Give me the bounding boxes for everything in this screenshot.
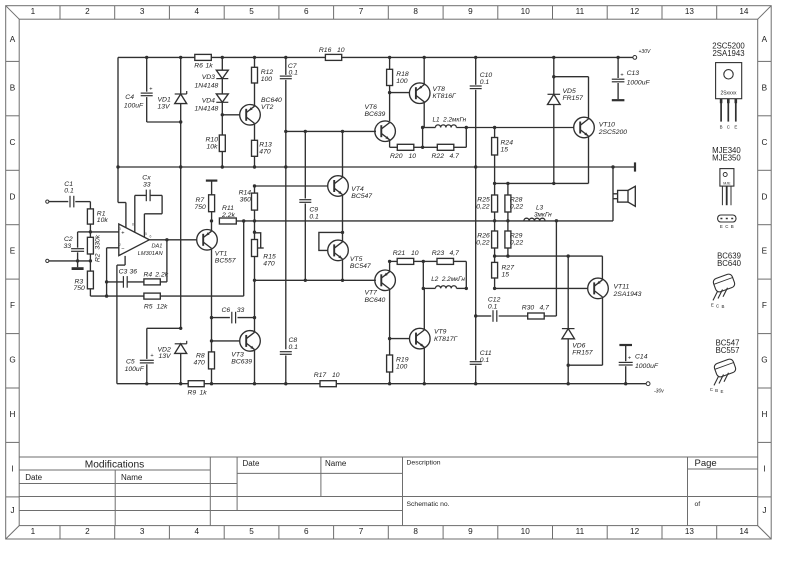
svg-text:VT3: VT3: [231, 351, 244, 358]
wire VT7 collector: [389, 289, 391, 339]
package TO-126 drawing: [720, 169, 734, 187]
wire R7 bottom: [211, 212, 213, 221]
package TO-92 bottom view: [718, 215, 736, 222]
svg-text:C11: C11: [480, 350, 492, 357]
resistor R8: [209, 352, 215, 369]
wire VT8 emitter to rail: [423, 57, 425, 84]
svg-text:2: 2: [119, 243, 121, 247]
svg-text:MJE: MJE: [723, 182, 731, 186]
svg-text:36: 36: [130, 269, 138, 276]
transistor VT10 2SC5200: [574, 117, 595, 138]
svg-text:10: 10: [411, 250, 419, 257]
resistor R1: [87, 209, 93, 224]
inductor L3: [524, 218, 545, 221]
svg-text:C9: C9: [309, 206, 318, 213]
svg-text:I: I: [11, 465, 13, 474]
svg-text:13V: 13V: [158, 103, 172, 110]
wire R11 right: [236, 220, 243, 222]
wire VT6 base: [375, 130, 376, 132]
svg-text:11: 11: [576, 7, 585, 16]
svg-text:470: 470: [194, 359, 206, 366]
wire VT4 emitter to VT5 collector: [342, 195, 344, 242]
capacitor C7: [285, 57, 287, 75]
svg-text:+: +: [149, 86, 152, 92]
svg-text:C6: C6: [222, 307, 231, 314]
svg-text:100: 100: [396, 363, 408, 370]
resistor R7: [211, 181, 213, 195]
svg-text:11: 11: [576, 527, 585, 536]
wire -30V bottom rail: [117, 383, 188, 385]
wire C3 left: [107, 281, 124, 283]
svg-text:0,22: 0,22: [476, 204, 489, 211]
svg-text:E: E: [721, 389, 724, 394]
svg-text:7: 7: [359, 7, 364, 16]
wire +input: [90, 231, 118, 233]
svg-text:of: of: [695, 501, 701, 508]
svg-text:Date: Date: [25, 473, 42, 482]
svg-text:12: 12: [630, 7, 640, 16]
svg-text:R22: R22: [432, 153, 445, 160]
svg-text:BC639: BC639: [231, 359, 252, 366]
wire input2: [49, 260, 91, 262]
svg-text:E: E: [720, 224, 723, 229]
svg-text:VT11: VT11: [614, 284, 630, 291]
svg-text:H: H: [761, 410, 767, 419]
wire VT11 emitter feed: [495, 255, 603, 257]
capacitor C9: [304, 131, 306, 198]
svg-text:10: 10: [521, 527, 531, 536]
svg-text:13: 13: [685, 527, 695, 536]
transistor VT9 KT817: [410, 328, 431, 349]
svg-text:13V: 13V: [159, 353, 173, 360]
package TO-92 3d view BC547/BC557: [713, 358, 737, 378]
resistor R23: [423, 260, 437, 262]
wire R3 bottom to feedback bus: [89, 289, 91, 296]
svg-text:КТ817Г: КТ817Г: [434, 336, 458, 343]
wire VD4 to base node: [221, 102, 223, 115]
svg-text:VT7: VT7: [365, 290, 378, 297]
svg-text:BC640: BC640: [261, 97, 282, 104]
svg-text:470: 470: [263, 260, 275, 267]
svg-text:0.1: 0.1: [289, 69, 299, 76]
svg-text:B: B: [762, 83, 768, 92]
wire VT7 emitter: [389, 261, 391, 272]
svg-text:C13: C13: [627, 70, 640, 77]
wire lower rail VAS: [255, 279, 376, 281]
terminal input 2: [46, 259, 49, 262]
wire C1 to R1: [75, 201, 90, 203]
terminal output bar: [634, 162, 636, 171]
svg-text:1k: 1k: [200, 390, 208, 397]
speaker: [613, 193, 618, 195]
svg-text:1: 1: [31, 7, 36, 16]
svg-text:FR157: FR157: [572, 350, 593, 357]
svg-text:R17: R17: [314, 372, 327, 379]
svg-text:F: F: [762, 301, 767, 310]
resistor R15 trimmer: [252, 240, 258, 257]
svg-text:+30V: +30V: [639, 49, 651, 55]
svg-text:1000uF: 1000uF: [635, 363, 659, 370]
svg-text:A: A: [10, 35, 16, 44]
svg-text:100: 100: [396, 78, 408, 85]
svg-text:6: 6: [304, 527, 309, 536]
inductor L2: [422, 261, 424, 288]
svg-text:10: 10: [521, 7, 531, 16]
svg-text:−: −: [121, 247, 124, 253]
svg-text:R19: R19: [396, 356, 409, 363]
svg-text:F: F: [10, 301, 15, 310]
resistor R17: [320, 381, 336, 387]
svg-text:R28: R28: [510, 196, 523, 203]
resistor R4: [144, 279, 160, 285]
svg-text:D: D: [761, 192, 767, 201]
svg-text:100uF: 100uF: [124, 102, 144, 109]
transistor VT3 BC639: [240, 331, 261, 352]
svg-text:1N4148: 1N4148: [195, 82, 219, 89]
svg-text:6: 6: [304, 7, 309, 16]
resistor R19: [387, 355, 393, 372]
resistor R25: [492, 195, 498, 212]
wire R1 to +input node: [89, 224, 91, 232]
svg-text:BC547: BC547: [351, 193, 372, 200]
resistor R12: [252, 67, 258, 83]
resistor R14: [252, 193, 258, 210]
wire R2 leads: [89, 232, 91, 237]
capacitor C11: [475, 167, 477, 361]
svg-text:VT10: VT10: [599, 122, 615, 129]
svg-text:R9: R9: [188, 390, 197, 397]
resistor R18: [387, 69, 393, 85]
svg-text:C: C: [10, 138, 16, 147]
wire op-amp output: [149, 239, 196, 241]
svg-text:C: C: [727, 124, 730, 129]
svg-text:2: 2: [85, 527, 90, 536]
svg-text:VT1: VT1: [215, 250, 228, 257]
resistor R26: [492, 231, 498, 248]
svg-text:VT9: VT9: [434, 329, 447, 336]
svg-text:0,22: 0,22: [510, 204, 523, 211]
svg-text:2SA1943: 2SA1943: [613, 291, 642, 298]
svg-text:E: E: [762, 247, 768, 256]
terminal bar R7: [206, 180, 218, 182]
svg-text:VT4: VT4: [351, 186, 364, 193]
svg-text:VT2: VT2: [261, 104, 274, 111]
svg-text:R29: R29: [510, 232, 523, 239]
wire VT6 collector: [389, 93, 391, 121]
svg-text:6: 6: [150, 235, 152, 239]
svg-text:33: 33: [237, 307, 245, 314]
svg-text:10k: 10k: [97, 217, 109, 224]
svg-text:G: G: [9, 356, 15, 365]
svg-text:J: J: [762, 506, 766, 515]
svg-text:Cx: Cx: [142, 174, 151, 181]
transistor VT4 BC547: [328, 176, 349, 197]
diode VD5: [553, 57, 555, 94]
wire VT3 collector: [254, 280, 256, 332]
resistor R28: [505, 195, 511, 212]
svg-text:L3: L3: [536, 204, 544, 211]
svg-text:E: E: [734, 124, 737, 129]
wire VT10 collector: [588, 77, 590, 119]
wire VT6 emitter: [389, 140, 391, 148]
wire R5 to jog: [160, 295, 243, 297]
wire R3 top: [89, 261, 91, 271]
svg-text:15: 15: [502, 271, 510, 278]
diode VD4: [216, 94, 228, 102]
svg-text:2.2k: 2.2k: [221, 212, 235, 219]
resistor R29: [505, 231, 511, 248]
svg-text:R2 330k: R2 330k: [94, 234, 101, 262]
transistor VT6 BC639: [375, 121, 396, 142]
capacitor C2: [71, 248, 84, 250]
svg-text:B: B: [720, 124, 723, 129]
svg-text:5: 5: [249, 7, 254, 16]
svg-text:VT8: VT8: [433, 86, 446, 93]
svg-text:0.1: 0.1: [480, 357, 490, 364]
wire VT10 emitter: [588, 136, 590, 183]
svg-text:Date: Date: [243, 459, 260, 468]
wire VT6 base feed: [286, 130, 376, 132]
wire VT5 emitter: [342, 259, 344, 280]
svg-text:Name: Name: [325, 459, 347, 468]
svg-text:R27: R27: [502, 264, 515, 271]
svg-text:12: 12: [630, 527, 640, 536]
svg-text:8: 8: [413, 527, 418, 536]
svg-text:2: 2: [85, 7, 90, 16]
svg-text:R14: R14: [239, 190, 252, 197]
wire input1: [49, 201, 68, 203]
transistor VT8 KT816: [409, 83, 430, 104]
zener VD2: [175, 343, 187, 345]
svg-text:4,7: 4,7: [540, 304, 550, 311]
svg-text:1: 1: [31, 527, 36, 536]
svg-text:4.7: 4.7: [450, 153, 460, 160]
wire VT4 base: [255, 185, 328, 187]
resistor R6: [195, 54, 212, 60]
svg-text:D: D: [10, 192, 16, 201]
svg-text:R4: R4: [144, 272, 153, 279]
svg-text:C12: C12: [488, 296, 501, 303]
svg-text:8: 8: [413, 7, 418, 16]
svg-text:C5: C5: [126, 358, 135, 365]
svg-text:C4: C4: [125, 94, 134, 101]
wire left supply column upper: [117, 57, 119, 202]
svg-text:Name: Name: [121, 473, 143, 482]
package TO-264 drawing: [716, 63, 742, 99]
capacitor C8: [280, 351, 292, 353]
capacitor C1: [69, 196, 71, 208]
svg-text:8: 8: [132, 223, 134, 227]
svg-text:C: C: [725, 224, 728, 229]
svg-text:C3: C3: [119, 269, 128, 276]
svg-text:R7: R7: [196, 197, 205, 204]
svg-text:5: 5: [145, 232, 147, 236]
wire C2 to input2: [77, 252, 79, 261]
resistor R22: [423, 146, 438, 148]
resistor R2: [87, 237, 93, 254]
transistor VT5 BC547: [328, 240, 349, 261]
svg-text:C: C: [761, 138, 767, 147]
ground bar under C2: [77, 261, 79, 267]
svg-text:4: 4: [195, 7, 200, 16]
svg-text:J: J: [10, 506, 14, 515]
svg-text:750: 750: [195, 204, 207, 211]
wire VD1 column mid: [180, 167, 182, 328]
capacitor C5: [146, 328, 148, 359]
svg-text:10: 10: [337, 47, 345, 54]
svg-text:-30v: -30v: [654, 389, 664, 395]
svg-text:3: 3: [140, 7, 145, 16]
svg-text:10: 10: [332, 372, 340, 379]
wire VD3-VD4: [221, 79, 223, 94]
resistor R3: [87, 271, 93, 289]
svg-text:R10: R10: [206, 136, 219, 143]
svg-text:10: 10: [409, 153, 417, 160]
resistor R27: [492, 262, 498, 278]
svg-text:BC557: BC557: [215, 257, 236, 264]
svg-text:3: 3: [140, 527, 145, 536]
capacitor C14: [619, 344, 632, 346]
svg-text:FR157: FR157: [563, 95, 584, 102]
svg-text:R6: R6: [194, 63, 203, 70]
svg-text:33: 33: [143, 182, 151, 189]
svg-text:0.1: 0.1: [289, 344, 299, 351]
wire VT5 base loop: [319, 232, 343, 250]
svg-text:I: I: [763, 465, 765, 474]
capacitor C3: [122, 276, 124, 288]
capacitor C4: [146, 57, 148, 91]
svg-text:R26: R26: [477, 232, 490, 239]
wire VT3 emitter: [254, 350, 256, 384]
wire mid bus: [244, 220, 613, 222]
wire VT4 collector: [342, 131, 344, 177]
svg-text:Description: Description: [407, 459, 441, 466]
svg-text:VD4: VD4: [202, 97, 215, 104]
svg-text:+: +: [150, 353, 153, 359]
svg-text:+: +: [121, 230, 124, 236]
svg-text:360: 360: [240, 197, 252, 204]
svg-text:10k: 10k: [207, 143, 219, 150]
wire VT11 base: [495, 287, 588, 289]
svg-text:3мкГн: 3мкГн: [534, 211, 552, 218]
svg-text:DA1: DA1: [152, 244, 163, 250]
svg-text:R12: R12: [261, 69, 274, 76]
svg-text:0.1: 0.1: [480, 79, 490, 86]
svg-text:0,22: 0,22: [476, 240, 489, 247]
svg-text:Schematic no.: Schematic no.: [407, 501, 450, 508]
svg-text:14: 14: [739, 527, 749, 536]
svg-text:R23: R23: [432, 250, 445, 257]
wire C2 branch: [78, 231, 91, 233]
svg-text:BC640: BC640: [717, 259, 742, 268]
transistor VT7 BC640: [375, 270, 396, 291]
wire C4 to VD1: [147, 121, 181, 123]
wire +30V top rail: [118, 56, 325, 58]
svg-text:BC547: BC547: [350, 263, 371, 270]
svg-text:750: 750: [74, 285, 86, 292]
svg-text:BC557: BC557: [716, 346, 740, 355]
wire left supply column lower: [124, 256, 126, 265]
svg-text:3: 3: [119, 227, 121, 231]
wire VT11 collector: [602, 298, 604, 365]
svg-text:R13: R13: [259, 141, 272, 148]
svg-text:15: 15: [501, 146, 509, 153]
svg-text:R24: R24: [501, 139, 514, 146]
svg-text:B: B: [10, 83, 16, 92]
svg-text:1000uF: 1000uF: [627, 80, 651, 87]
svg-text:BC640: BC640: [365, 297, 386, 304]
svg-text:A: A: [762, 35, 768, 44]
svg-text:33: 33: [64, 243, 72, 250]
resistor R30: [528, 313, 545, 319]
svg-text:R30: R30: [522, 304, 535, 311]
svg-text:R15: R15: [263, 253, 276, 260]
wire mid output rail: [118, 166, 634, 168]
svg-text:C: C: [716, 304, 719, 309]
svg-text:2SC5200: 2SC5200: [598, 129, 628, 136]
svg-text:C: C: [710, 387, 713, 392]
svg-text:R5: R5: [144, 303, 153, 310]
svg-text:R11: R11: [222, 205, 234, 212]
svg-text:R16: R16: [319, 47, 332, 54]
transistor VT1 BC557: [197, 230, 218, 251]
svg-text:1k: 1k: [206, 63, 214, 70]
svg-text:B: B: [715, 388, 718, 393]
diode VD3: [221, 57, 223, 70]
svg-text:B: B: [731, 224, 734, 229]
svg-text:100: 100: [261, 76, 273, 83]
svg-text:0.1: 0.1: [64, 188, 74, 195]
svg-text:R18: R18: [396, 71, 409, 78]
resistor R13: [252, 140, 258, 156]
wire output to speaker: [612, 167, 614, 221]
wire C7-C8 column: [285, 167, 287, 349]
svg-text:VT6: VT6: [365, 104, 378, 111]
svg-text:VT5: VT5: [350, 256, 363, 263]
resistor R5: [144, 293, 160, 299]
wire -input: [107, 247, 119, 249]
svg-text:12k: 12k: [157, 303, 169, 310]
svg-text:0.1: 0.1: [488, 304, 498, 311]
svg-text:LM301AN: LM301AN: [138, 251, 164, 257]
svg-text:+: +: [620, 73, 623, 79]
svg-text:BC639: BC639: [365, 111, 386, 118]
inductor L1: [423, 127, 436, 129]
svg-text:VD5: VD5: [563, 88, 576, 95]
wire VT8 collector to L1 node: [423, 102, 425, 128]
svg-text:L1 2.2мкГн: L1 2.2мкГн: [433, 116, 467, 123]
svg-text:E: E: [10, 247, 16, 256]
wire L1 to VT10 base: [495, 127, 574, 129]
diode VD6: [567, 256, 569, 329]
svg-text:9: 9: [468, 527, 473, 536]
resistor R24: [492, 138, 498, 156]
svg-text:G: G: [761, 356, 767, 365]
svg-text:5: 5: [249, 527, 254, 536]
package TO-92 3d view BC639/BC640: [712, 273, 736, 293]
svg-text:4: 4: [195, 527, 200, 536]
zener VD1: [180, 57, 182, 94]
svg-text:4,7: 4,7: [450, 250, 460, 257]
svg-text:B: B: [722, 304, 725, 309]
wire C3 to R4: [127, 281, 144, 283]
wire VT1 collector column: [211, 248, 213, 352]
svg-text:2Sxxxx: 2Sxxxx: [720, 90, 737, 96]
svg-text:13: 13: [685, 7, 695, 16]
svg-text:9: 9: [468, 7, 473, 16]
transistor VT2 BC640: [240, 105, 261, 126]
capacitor Cx: [145, 190, 147, 202]
